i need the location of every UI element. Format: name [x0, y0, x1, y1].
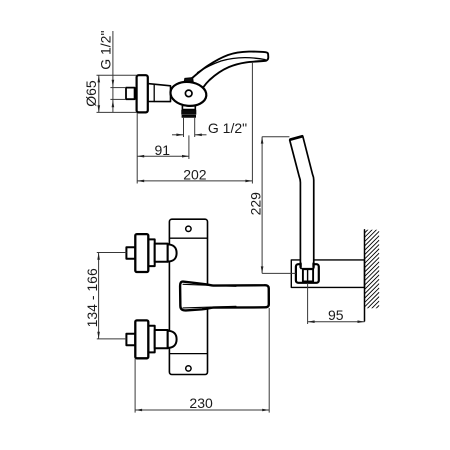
svg-text:202: 202: [183, 166, 207, 182]
svg-text:91: 91: [155, 142, 171, 158]
svg-text:G 1/2": G 1/2": [208, 120, 247, 136]
svg-text:G 1/2": G 1/2": [97, 31, 113, 70]
svg-text:Ø65: Ø65: [83, 80, 99, 107]
svg-text:134 - 166: 134 - 166: [84, 268, 100, 327]
svg-text:230: 230: [189, 395, 213, 411]
svg-text:95: 95: [328, 307, 344, 323]
svg-text:229: 229: [248, 192, 264, 216]
